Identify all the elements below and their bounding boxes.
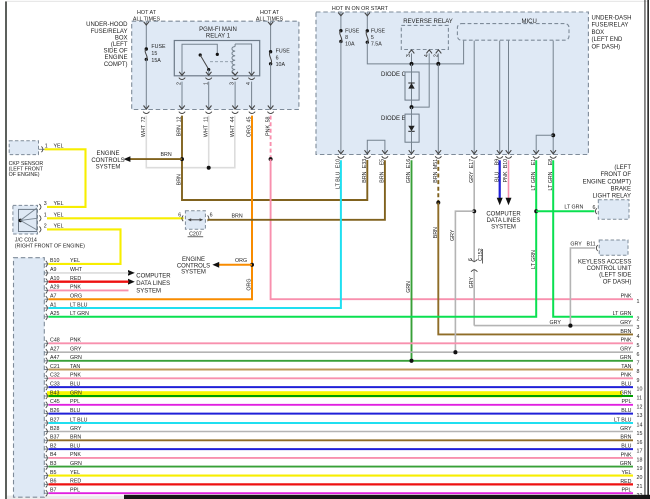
wire BRN branch to engine controls [130,158,183,160]
node brake relay branch [534,209,538,213]
svg-text:DIODE B: DIODE B [381,116,406,122]
wire PPL row 22 [49,492,634,494]
svg-text:7.5A: 7.5A [371,41,382,47]
fuse F6 [269,50,272,53]
svg-text:HOT AT: HOT AT [137,10,157,16]
wire BLU row 13 [49,413,634,415]
wire relay pin 2 to box bottom [181,82,183,110]
wire fuse 6 to box bottom [270,64,272,110]
wire BRN M51 to row 4 [438,203,633,335]
svg-text:6: 6 [593,205,596,211]
svg-text:10A: 10A [345,41,355,47]
C207 double arrow [190,219,202,221]
ECM pin C21 [44,369,48,371]
svg-text:PGM-FI MAIN: PGM-FI MAIN [199,27,237,33]
node GRY row3 junction [568,324,572,328]
under-hood box bottom connector arcs [143,112,274,114]
node WHT junction [207,166,211,170]
svg-text:6: 6 [210,213,213,219]
wire GRN E16 to row 7 [411,160,413,360]
svg-text:8: 8 [345,35,348,41]
svg-text:6: 6 [468,258,474,261]
svg-text:OF DASH): OF DASH) [603,279,632,285]
under-hood fuse/relay box [132,21,299,109]
under-dash box bottom connector arcs [338,156,557,158]
node GRY row6 junction top [453,350,457,354]
svg-text:YEL: YEL [54,201,64,207]
svg-text:10: 10 [637,387,643,393]
page frame left bar [5,1,7,499]
ECM pin B28 [44,431,48,433]
ECM pin B27 [44,422,48,424]
fuse F8 [339,29,342,32]
ECM pin B6 [44,483,48,485]
svg-text:19: 19 [637,466,643,472]
svg-text:BLU: BLU [621,382,631,388]
diode B [405,114,419,142]
relay switch arm (pin 1) [200,55,209,69]
svg-text:(LEFT: (LEFT [111,42,128,48]
svg-text:6: 6 [637,352,640,358]
svg-text:15: 15 [151,51,157,57]
wire GRY E17 to row 3 [474,325,633,327]
svg-text:FUSE: FUSE [151,44,166,50]
wire reverse relay pin 3 [411,53,413,64]
relay coil bracket (pin 4) [235,44,252,76]
svg-text:3: 3 [44,201,47,207]
jumper E33 to E5 [367,140,385,154]
wire MICU to PNK B10 [508,41,510,155]
svg-text:5: 5 [637,343,640,349]
J/C C014 internal junction [19,219,23,223]
wire MICU to LT GRN E8 [552,41,554,155]
under-dash fuse/relay box [316,12,588,155]
svg-text:(RIGHT FRONT OF ENGINE): (RIGHT FRONT OF ENGINE) [15,243,85,249]
svg-text:HOT AT: HOT AT [260,10,280,16]
svg-text:20: 20 [637,475,643,481]
svg-text:GRN: GRN [620,461,632,467]
svg-text:A7: A7 [50,294,57,300]
svg-text:BRN: BRN [620,435,631,441]
svg-text:B10: B10 [50,258,59,264]
wire GRN row 19 [49,466,634,468]
relay REVERSE RELAY box [401,25,448,49]
page frame top line [7,0,648,3]
svg-text:22: 22 [637,493,643,499]
svg-text:PNK: PNK [621,373,632,379]
svg-text:A25: A25 [50,311,59,317]
ECM pin C32 [44,377,48,379]
svg-text:1: 1 [44,213,47,219]
svg-text:15: 15 [637,431,643,437]
svg-text:7: 7 [637,360,640,366]
wire LT GRN E1 to A25 row [49,160,537,316]
svg-text:FUSE/RELAY: FUSE/RELAY [592,23,629,29]
svg-text:SYSTEM: SYSTEM [491,225,516,231]
ECM pin B3 [44,466,48,468]
wire reverse relay pin 4 to diode junction [412,53,430,107]
wire GRY row 6 [49,351,634,353]
svg-text:BRAKE: BRAKE [611,187,631,193]
svg-text:GRY: GRY [469,277,475,289]
svg-text:SIDE OF: SIDE OF [103,49,127,55]
wire relay pin 1 to box bottom [208,82,210,110]
wire RED row 21 [49,483,634,485]
wire BRN M51 dashed [437,160,439,202]
wire RED A10 [49,281,129,283]
connector C207 [185,211,205,229]
svg-text:HOT IN ON OR START: HOT IN ON OR START [332,6,389,12]
ECM pin A25 [44,316,48,318]
svg-text:6: 6 [276,55,279,61]
svg-text:ORG: ORG [235,258,247,264]
relay contact feed bracket (pin 2) [182,44,217,76]
svg-text:UNDER-DASH: UNDER-DASH [592,16,632,22]
ECM pin B5 [44,475,48,477]
svg-text:BRN: BRN [620,329,631,335]
wire BLU row 17 [49,448,634,450]
ECM pin B43 [44,395,48,397]
reverse relay pin 2 arrow [436,50,442,53]
ECM pin B10 [44,263,48,265]
svg-text:CONTROL UNIT: CONTROL UNIT [587,266,632,272]
ECM pin A1 [44,307,48,309]
MICU box [457,24,569,41]
svg-text:CONTROLS: CONTROLS [91,158,124,164]
wire LT BLU row 14 [49,422,634,424]
relay fixed contact [216,53,219,56]
svg-text:(LEFT: (LEFT [614,165,631,171]
svg-text:PNK: PNK [621,294,632,300]
node diode junction [410,105,414,109]
node GRY row3 junction top [568,324,572,328]
svg-text:BRN: BRN [362,171,368,182]
svg-text:5: 5 [371,35,374,41]
connector C152 [471,259,477,261]
svg-text:3: 3 [637,325,640,331]
wire BLU row 10 [49,386,634,388]
svg-text:12: 12 [637,404,643,410]
fuse F15 [145,47,148,50]
svg-text:2: 2 [44,224,47,230]
svg-text:B11: B11 [587,241,596,247]
wire GRN row 7 [49,360,634,362]
svg-text:BOX: BOX [592,30,605,36]
svg-text:13: 13 [637,413,643,419]
CKP sensor box [9,141,38,155]
svg-text:OF DASH): OF DASH) [592,44,621,50]
wire relay pin 3 to box bottom [234,82,236,110]
wire LT GRN E8 to row 2 [553,160,633,316]
keyless access control unit box [599,240,628,255]
svg-text:LT GRN: LT GRN [564,205,583,211]
wire fuse 8 to box bottom [340,42,342,155]
wire hot feed to fuse 6 [270,22,272,52]
svg-text:9: 9 [637,378,640,384]
svg-text:RELAY 1: RELAY 1 [206,34,231,40]
svg-text:6: 6 [178,213,181,219]
wire BLU B9 to computer data lines [499,160,501,198]
ECM pin C45 [44,404,48,406]
svg-text:4: 4 [637,334,640,340]
svg-text:TAN: TAN [621,364,631,370]
ECM pin C33 [44,386,48,388]
relay pin connector arcs [179,78,255,80]
wire ORG branch to engine controls [218,264,252,266]
node GRY branch junction [472,209,476,213]
relay coil (pin 3) [232,47,235,75]
relay brake light relay box [598,200,629,219]
svg-text:GRY: GRY [450,229,456,241]
wire PNK fuse6 drop dashed [270,116,272,160]
highlight band row 11 [47,391,622,397]
wire WHT pin1 drop [208,116,210,168]
svg-text:18: 18 [637,458,643,464]
svg-text:LT GRN: LT GRN [70,311,89,317]
svg-text:KEYLESS ACCESS: KEYLESS ACCESS [578,259,631,265]
svg-text:E33: E33 [362,159,368,168]
wire YEL row 20 [49,475,634,477]
wire GRY keyless B11 to row 3 [570,248,595,326]
svg-text:ENGINE: ENGINE [96,151,119,157]
wire TAN row 8 [49,369,634,371]
svg-text:A1: A1 [50,302,57,308]
svg-text:11: 11 [637,396,643,402]
svg-text:FUSE: FUSE [345,28,360,34]
svg-text:1: 1 [637,299,640,305]
node GRN row7 junction [410,359,414,363]
wire PNK row 18 [49,457,634,459]
arrow to engine controls system 2 [212,262,219,268]
svg-text:17: 17 [637,449,643,455]
wire branch to E1 [536,135,553,154]
wire hot feed to fuse 15 [145,22,147,49]
wire fuse 5 to relay feed [367,41,463,64]
svg-text:LT BLU: LT BLU [70,302,88,308]
wire GRN row 11 [49,395,634,397]
svg-text:16: 16 [637,440,643,446]
wire PPL row 12 [49,404,634,406]
relay PGM-FI body [174,41,259,76]
under-hood box bottom exit arrows [144,106,274,110]
ECM/PCM connector box [14,258,45,498]
svg-text:14: 14 [637,423,643,429]
wire PNK B10 to computer data lines [508,160,510,198]
svg-text:ENGINE: ENGINE [104,55,127,61]
svg-text:BLU: BLU [621,408,631,414]
svg-text:SYSTEM: SYSTEM [181,270,206,276]
wire hot feed to fuse 5 [366,12,368,30]
page frame right double line [644,0,645,499]
wire hot feed to fuse 8 [340,12,342,30]
node GRN row7 junction top [410,359,414,363]
svg-text:COMPT): COMPT) [104,62,128,68]
svg-text:OF ENGINE): OF ENGINE) [9,172,40,178]
node E1 branch [551,133,555,137]
svg-text:(LEFT END: (LEFT END [592,37,624,43]
svg-text:YEL: YEL [70,258,80,264]
svg-text:BOX: BOX [115,35,128,41]
svg-text:PPL: PPL [621,488,631,494]
wire reverse relay pin 2 [437,53,439,64]
svg-text:10A: 10A [276,62,286,68]
fuse F5 [366,29,369,32]
ECM pin C48 [44,342,48,344]
node PNK splice [269,157,273,161]
wire MICU to GRY E17 [473,41,475,155]
reverse relay pin 3 arrow [409,50,415,53]
svg-text:UNDER-HOOD: UNDER-HOOD [86,22,128,28]
svg-text:GRN: GRN [406,281,412,293]
wire fuse 15 to box bottom [145,59,147,109]
svg-text:LT BLU: LT BLU [614,417,632,423]
wire pin 2 drop to box bottom [437,64,439,154]
wire PNK row 5 [49,342,634,344]
J/C C014 pin 1 [39,215,41,221]
svg-text:GRY: GRY [550,320,562,326]
diode C [405,72,419,100]
arrow RED to computer data lines [128,279,135,285]
wire GRY branch [455,211,474,352]
svg-text:BRN: BRN [177,174,183,185]
wire MICU to BLU B9 [499,41,501,155]
svg-text:E5: E5 [380,159,386,166]
svg-text:COMPUTER: COMPUTER [136,273,171,279]
svg-text:LIGHT RELAY: LIGHT RELAY [593,194,631,200]
J/C C014 pin 2 [39,227,41,233]
wire PNK row 9 [49,377,634,379]
wire WHT A9 [49,272,129,274]
svg-text:FRONT OF: FRONT OF [600,172,631,178]
svg-text:GRN: GRN [620,390,632,396]
wire YEL J/C pin1 to C207 [47,217,184,219]
svg-text:CONTROLS: CONTROLS [177,263,210,269]
CKP pin 1 stub [39,148,45,150]
reverse relay pin 4 arrow [426,50,432,53]
svg-text:ALL TIMES: ALL TIMES [256,16,284,22]
svg-text:GRN: GRN [620,355,632,361]
wire PNK to row 1 [271,159,633,299]
ECM pin B26 [44,413,48,415]
ECM pin B4 [44,457,48,459]
svg-text:DATA LINES: DATA LINES [487,218,521,224]
ECM pin A29 [44,289,48,291]
wire PNK A29 [49,289,129,291]
ECM pin A47 [44,360,48,362]
svg-text:PNK: PNK [621,452,632,458]
svg-text:21: 21 [637,484,643,490]
svg-text:8: 8 [637,369,640,375]
relay pin arrows at body bottom [179,72,254,76]
wire ORG pin4 drop [49,116,253,300]
ECM pin A9 [44,272,48,274]
svg-text:BRN: BRN [161,152,172,158]
svg-text:BRN: BRN [433,227,439,238]
svg-text:GRY: GRY [620,347,632,353]
svg-text:2: 2 [637,316,640,322]
wire GRY row 15 [49,431,634,433]
node BRN junction [180,157,184,161]
svg-text:ENGINE: ENGINE [182,257,205,263]
wire YEL CKP to J/C C014 pin 3 [45,149,86,207]
svg-text:REVERSE RELAY: REVERSE RELAY [403,19,453,25]
svg-text:BLU: BLU [621,444,631,450]
relay open contact [199,53,202,56]
arrow to engine controls system 1 [124,156,131,162]
ECM pin B2 [44,448,48,450]
svg-text:(LEFT SIDE: (LEFT SIDE [599,273,631,279]
svg-text:GRY: GRY [570,241,582,247]
svg-text:SYSTEM: SYSTEM [96,164,121,170]
svg-text:BRN: BRN [380,171,386,182]
svg-text:FUSE: FUSE [276,49,291,55]
ECM pin B7 [44,492,48,494]
wire relay pin 4 to box bottom [251,82,253,110]
under-dash box bottom exit arrows [338,150,556,154]
svg-text:ENGINE COMPT): ENGINE COMPT) [583,179,631,185]
wire BRN pin2 drop [182,116,367,200]
relay armature dashed link [210,61,234,63]
svg-text:LT GRN: LT GRN [613,311,632,317]
wire YEL B10 to J/C pin2 [47,229,121,264]
node ORG junction [250,263,254,267]
wire BRN C207 to E5 [207,160,385,220]
svg-text:GRY: GRY [620,426,632,432]
page frame bottom band [7,496,124,499]
node BRN splice [436,201,440,205]
svg-text:DIODE C: DIODE C [381,72,407,78]
svg-text:ORG: ORG [70,294,82,300]
svg-text:PNK: PNK [621,338,632,344]
J/C C014 pin 3 [39,204,41,210]
svg-text:BRN: BRN [232,213,243,219]
ECM pin A10 [44,281,48,283]
svg-text:YEL: YEL [621,470,631,476]
wire LT BLU E10 to A1 row [49,160,341,308]
svg-text:15A: 15A [151,58,161,64]
wire WHT fuse15 drop [146,116,235,168]
svg-text:GRY: GRY [620,320,632,326]
arrow WHT to computer data lines [128,270,135,276]
svg-text:FUSE: FUSE [371,28,386,34]
svg-text:LT GRN: LT GRN [531,250,537,269]
svg-text:COMPUTER: COMPUTER [486,211,521,217]
svg-text:FUSE/RELAY: FUSE/RELAY [91,29,128,35]
svg-text:PPL: PPL [621,399,631,405]
J/C C014 outer box [13,205,38,234]
J/C C014 junction block [19,209,37,231]
svg-text:ORG: ORG [247,279,253,291]
ECM pin B37 [44,439,48,441]
wire LT GRN to brake light relay [536,210,594,212]
wire BRN row 16 [49,439,634,441]
svg-text:RED: RED [620,479,631,485]
ECM pin A27 [44,351,48,353]
svg-text:SYSTEM: SYSTEM [136,289,161,295]
svg-text:DATA LINES: DATA LINES [136,281,170,287]
wire GRY E17 [473,160,475,262]
node GRY row6 junction [453,350,457,354]
ECM pin A7 [44,298,48,300]
